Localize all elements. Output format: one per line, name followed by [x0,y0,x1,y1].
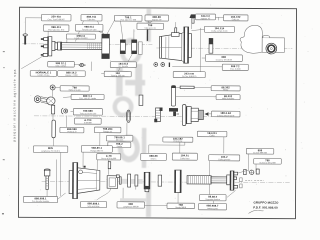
watermark band bottom center [119,179,143,184]
hub cylinder bottom [144,172,150,191]
housing top-right [240,25,284,54]
svg-text:Prot. tubo forc. 970: Prot. tubo forc. 970 [48,28,64,31]
svg-text:988.011: 988.011 [84,26,94,29]
leader wires mid [52,87,256,203]
washer 3 [158,175,162,186]
svg-text:888.88: 888.88 [149,155,158,158]
svg-text:Forcella con tubo: Forcella con tubo [82,28,97,31]
watermark bar bottom [146,172,151,217]
svg-text:Ghiera: Ghiera [151,157,158,160]
svg-text:Cuffia fissa: Cuffia fissa [180,158,190,160]
tiny rings row [154,62,170,67]
svg-text:Protezione: Protezione [173,140,182,143]
label E1 [30,71,57,77]
bolt part mid-top [209,38,213,53]
label L1 [81,201,107,208]
title block [248,200,279,213]
svg-text:Con forcella snodata: Con forcella snodata [32,200,50,203]
label GT2 [222,64,248,71]
grease elbow part [169,108,179,116]
svg-text:Doppia t. 1000: Doppia t. 1000 [65,74,77,77]
washer 1 [128,174,131,187]
bell cone [160,22,182,61]
watermark f strokes [135,64,142,96]
svg-text:S.t. forcella: S.t. forcella [119,65,129,68]
watermark band above L2 [120,198,147,201]
label M3 [198,204,226,211]
svg-text:9.98.988: 9.98.988 [84,122,91,124]
label BL [24,196,58,203]
bolt bottom-left [44,169,50,189]
o-ring mid [126,110,130,123]
svg-text:Cuffia girevole: Cuffia girevole [218,158,230,161]
svg-text:Perno d.28 lg.988: Perno d.28 lg.988 [101,157,116,160]
svg-text:Flangia att.: Flangia att. [103,130,113,133]
label F3 [73,109,102,116]
centerline top row [22,43,152,46]
washer 2 [135,175,138,186]
label K1 [246,148,274,154]
svg-text:184.01: 184.01 [181,154,190,157]
svg-text:Lunghezza 988.98: Lunghezza 988.98 [123,206,139,208]
watermark ring 2 [113,96,134,117]
label A4 [195,14,215,20]
svg-text:Croc. Travl 9.98.987: Croc. Travl 9.98.987 [48,18,65,21]
svg-text:Perno: Perno [223,88,228,91]
flange cross bottom [227,171,238,190]
label J1 [33,146,68,153]
label C1 [66,34,95,40]
svg-text:Ingrass. 45: Ingrass. 45 [201,17,210,20]
border frame [18,7,296,218]
label M2 [167,203,195,209]
svg-text:GRUPPO MOZZO: GRUPPO MOZZO [254,200,280,204]
label B2r [137,23,164,30]
label A2 [114,15,142,21]
label I4 [106,136,133,142]
centerline cone/housing [156,47,292,50]
label GT1 [205,55,242,62]
bolt T1 [23,34,27,45]
label F2 [71,94,104,100]
flange joint plate [48,37,52,56]
svg-text:tutto occhione: tutto occhione [88,205,100,208]
label D1 [48,61,75,67]
svg-text:Perno d. 8: Perno d. 8 [68,130,77,133]
svg-text:259 410: 259 410 [51,16,61,19]
leader wires top-left [25,18,152,43]
svg-text:22.5 mm: 22.5 mm [116,139,124,141]
tiny ring D1 [79,63,86,66]
label I6 [197,131,227,137]
label A3 [145,15,169,21]
cylinder T6c [139,42,143,55]
label J5 [209,155,240,161]
svg-text:Lungh. mm 810: Lungh. mm 810 [74,38,87,40]
label J2 [81,146,112,153]
dashes far right [245,180,263,182]
svg-text:MIN: MIN [48,147,53,150]
svg-text:pasquali macchine agricole spa: pasquali macchine agricole spa [12,69,16,142]
watermark ring o [120,38,142,65]
label G1 [211,86,240,92]
sleeve T5 [102,34,110,58]
label L2 [117,202,145,209]
centerline bottom row [42,181,290,182]
centerline mid row [34,115,213,118]
flange bolt 2 [41,45,48,48]
svg-text:P.D.F. 991.986.00: P.D.F. 991.986.00 [253,205,278,209]
label K2 [254,158,282,164]
svg-text:Croc. 9.8.98: Croc. 9.8.98 [230,68,240,71]
cylinder T6b [132,40,137,54]
label B2 [75,24,103,31]
svg-text:Da Tav. 9.88.970: Da Tav. 9.88.970 [182,76,196,78]
svg-text:Tubo forc.: Tubo forc. [87,18,96,21]
label J2b [97,154,121,161]
label C2 [204,26,234,32]
label M1 [200,195,227,202]
splined shaft bottom [187,176,227,185]
splined stub mid [154,107,162,122]
label E3 [110,62,136,68]
cone bottom-left [69,163,100,199]
watermark bar mid [142,128,147,168]
label G0 [173,72,205,78]
label F1 [60,86,89,92]
small squares far right [240,178,243,182]
label A1 [81,15,102,22]
flange bolt 3 [41,53,48,56]
svg-text:Lunghezza PF 0,8,9 m: Lunghezza PF 0,8,9 m [41,151,60,153]
svg-text:888: 888 [222,56,227,59]
svg-text:Flangia 280 TV: Flangia 280 TV [90,150,104,152]
tiny pin above gearbox [108,162,111,169]
bell flange [182,27,192,63]
watermark ring e [118,134,140,162]
clamp icon [61,108,67,114]
small washer far right [244,169,247,174]
fork yoke [34,96,55,114]
svg-text:Tubo lg. 500 mm: Tubo lg. 500 mm [111,75,126,77]
label H [211,111,240,117]
label G2 [216,95,240,101]
svg-text:Croc. compl.: Croc. compl. [56,64,67,67]
svg-text:988.89.1: 988.89.1 [92,147,103,150]
shaft T4 [62,43,102,50]
svg-text:Supporto elastico: Supporto elastico [205,198,220,201]
label I4b [108,142,131,148]
svg-text:Prot. tubo est. 988: Prot. tubo est. 988 [120,18,135,21]
small bolt far right [238,169,260,175]
svg-text:Molla richiamo: Molla richiamo [222,97,234,100]
label I2 [60,127,84,133]
svg-text:Anello: Anello [117,145,122,148]
svg-text:Cuffia int.: Cuffia int. [232,18,240,21]
svg-text:Forc. con att. rapido: Forc. con att. rapido [79,97,96,100]
pin B mid [139,95,143,105]
label I3 [94,127,121,133]
svg-text:Crociera TR.9.8.98: Crociera TR.9.8.98 [216,58,232,61]
tall pin mid-left [52,120,55,138]
label I1 [75,118,102,124]
svg-text:Spina a scatto: Spina a scatto [69,89,81,92]
svg-text:Scatola d.28 lg.988: Scatola d.28 lg.988 [259,161,275,164]
gearbox bottom [97,175,120,201]
tall cylinder bottom [175,170,182,193]
grease tee icon [145,23,151,41]
grease nipple [189,14,196,23]
label J3 [141,153,167,160]
svg-text:Scatola 988.988: Scatola 988.988 [253,151,267,154]
leader wires top-right [21,16,223,74]
label A0 [41,14,71,21]
label I5 [163,137,193,143]
label A5 [223,15,248,21]
svg-text:Calotta attraversante: Calotta attraversante [217,114,235,117]
pin A mid [171,86,175,107]
svg-text:Cuffia compl. d.mm: Cuffia compl. d.mm [211,31,228,33]
washer s1 [119,177,121,184]
svg-text:Tutto occhione d.30: Tutto occhione d.30 [80,112,97,115]
svg-text:Lungh. chiusa: Lungh. chiusa [37,75,50,77]
label J4 [172,153,197,160]
label E2 [58,71,86,77]
svg-text:Ingrass. 90: Ingrass. 90 [152,18,161,21]
label E4 [104,71,131,77]
svg-text:Tubo prot. int.: Tubo prot. int. [144,27,156,30]
rod mid [180,86,194,89]
watermark vertical bar top [146,9,151,42]
margin ticks [3,51,5,52]
fork bolt ring [50,85,55,90]
label B1 [43,25,69,32]
joint hub steps [52,41,62,50]
svg-text:Snodo 988.8: Snodo 988.8 [175,207,186,209]
hub assembly [182,105,208,126]
cylinder T6a [120,40,125,54]
svg-text:Lamiera prot.: Lamiera prot. [207,207,219,210]
leader wires bottom [47,152,236,206]
flange bolt 1 [41,38,48,41]
